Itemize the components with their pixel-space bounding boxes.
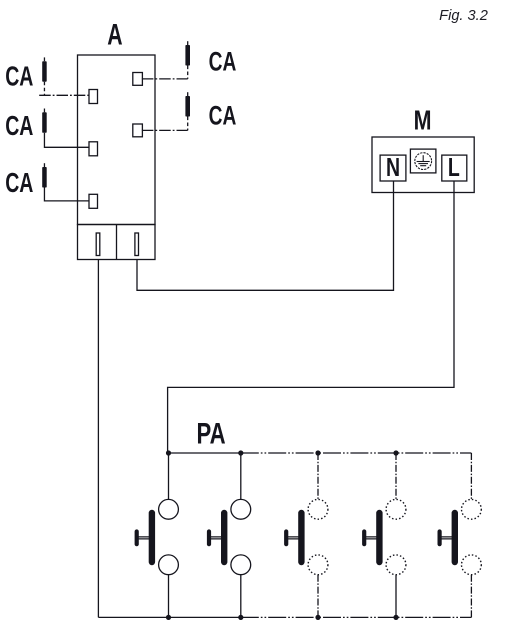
svg-text:PA: PA [196, 416, 225, 450]
svg-text:CA: CA [209, 100, 237, 130]
svg-text:A: A [107, 19, 122, 51]
svg-text:L: L [448, 152, 460, 181]
svg-text:M: M [414, 106, 432, 136]
svg-text:CA: CA [5, 61, 33, 92]
svg-text:Fig. 3.2: Fig. 3.2 [439, 8, 488, 24]
svg-text:N: N [386, 152, 400, 181]
svg-text:CA: CA [209, 46, 237, 76]
svg-text:CA: CA [5, 168, 33, 199]
svg-text:CA: CA [5, 111, 33, 142]
